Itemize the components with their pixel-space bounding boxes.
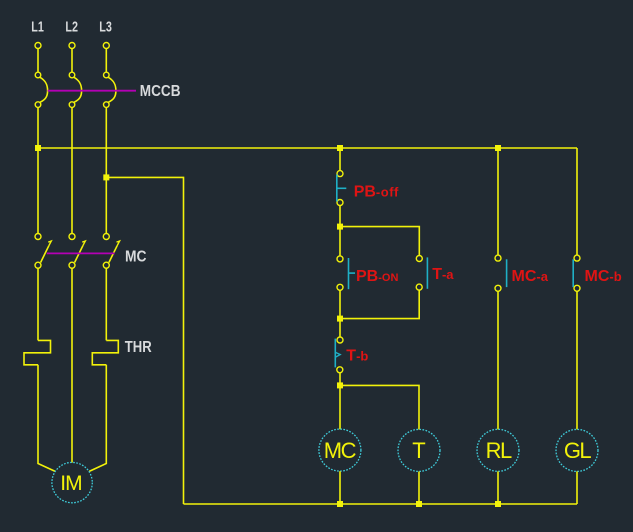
wire THR element1 to motor [38, 365, 55, 472]
wire L3 terminal to MCCB [105, 49, 107, 73]
wire MC pole2 to motor [71, 268, 73, 462]
thermal relay THR element 1 [24, 340, 51, 364]
junction MC-a column at top bus [495, 145, 501, 151]
wire MC pole1 to THR element1 [37, 268, 39, 340]
wire junction2 to T-b [339, 319, 341, 337]
auxiliary contact MC-b [573, 255, 622, 291]
breaker MCCB pole 3 [104, 72, 116, 107]
svg-text:T-b: T-b [346, 348, 368, 365]
svg-text:T: T [412, 438, 425, 463]
junction coil MC at rail [337, 501, 343, 507]
wire PB-off to junction [339, 206, 341, 227]
pushbutton PB-off [337, 171, 399, 206]
wire MCCB pole3 to MC pole3 [105, 107, 107, 233]
wire MC-b to coil GL [576, 291, 578, 429]
node L2 [65, 19, 78, 49]
motor IM [52, 462, 92, 502]
junction PB-off column at top bus [337, 145, 343, 151]
coil RL [477, 429, 519, 471]
junction below T-b [337, 382, 343, 388]
junction coil T at rail [416, 501, 422, 507]
wire THR element2 to motor [89, 365, 106, 472]
contactor MC pole 1 [35, 234, 51, 269]
wire junction3 to coil MC [339, 385, 341, 429]
junction below PB-ON [337, 316, 343, 322]
junction coil RL at rail [495, 501, 501, 507]
wire control return branch from L3 [106, 177, 183, 504]
coil MC [319, 429, 361, 471]
node L3 [99, 19, 112, 49]
wire T-a to junction2 [340, 290, 419, 319]
svg-text:MC: MC [324, 438, 357, 463]
wire top control bus from L1 [38, 147, 577, 149]
svg-text:IM: IM [60, 472, 81, 495]
timer contact T-a [416, 256, 454, 291]
wire MC-a to coil RL [497, 291, 499, 429]
coil T [398, 429, 440, 471]
svg-text:L3: L3 [99, 19, 112, 36]
svg-text:MC-a: MC-a [512, 268, 549, 285]
contactor MC pole 2 [69, 234, 85, 269]
wire PB-ON to junction2 [339, 290, 341, 318]
node L1 [31, 19, 44, 49]
svg-text:MC-b: MC-b [585, 268, 622, 285]
breaker MCCB pole 2 [69, 72, 81, 107]
wire branch junction to T-a [340, 227, 419, 256]
junction below PB-off [337, 224, 343, 230]
wire MCCB pole1 to MC pole1 [37, 107, 39, 233]
timer contact T-b [335, 337, 368, 373]
wire bus to PB-off [339, 148, 341, 171]
breaker MCCB linkage bar [48, 90, 136, 92]
svg-text:THR: THR [125, 339, 152, 356]
svg-text:RL: RL [486, 438, 512, 463]
coil GL [556, 429, 598, 471]
junction L3 return branch [103, 174, 109, 180]
svg-text:MC: MC [125, 249, 147, 266]
svg-text:T-a: T-a [432, 266, 454, 283]
wire coil T to rail [418, 472, 420, 505]
svg-text:L2: L2 [65, 19, 78, 36]
svg-text:PB-off: PB-off [354, 184, 399, 201]
wire coil MC to rail [339, 471, 341, 504]
wire T-b to junction3 [339, 373, 341, 386]
wire MC pole3 to THR element2 [105, 268, 107, 340]
wire coil GL to rail [576, 471, 578, 504]
svg-text:L1: L1 [31, 19, 44, 36]
pushbutton PB-ON [337, 256, 398, 290]
contactor MC linkage bar [47, 252, 115, 254]
svg-text:GL: GL [564, 438, 592, 463]
thermal relay THR element 2 [92, 340, 118, 364]
wire MCCB pole2 to MC pole2 [71, 107, 73, 233]
wire coil RL to rail [497, 471, 499, 504]
contactor MC pole 3 [103, 234, 119, 269]
auxiliary contact MC-a [495, 255, 549, 291]
wire branch junction3 to coil T [340, 385, 419, 429]
junction L1 top bus [35, 145, 41, 151]
breaker MCCB pole 1 [35, 72, 47, 107]
wire bottom control rail [184, 503, 578, 505]
svg-text:MCCB: MCCB [140, 83, 181, 100]
wire bus corner to MC-b [576, 148, 578, 255]
wire L1 terminal to MCCB [37, 49, 39, 73]
wire L2 terminal to MCCB [71, 49, 73, 73]
wire junction to PB-ON [339, 227, 341, 256]
wire bus to MC-a [497, 148, 499, 255]
